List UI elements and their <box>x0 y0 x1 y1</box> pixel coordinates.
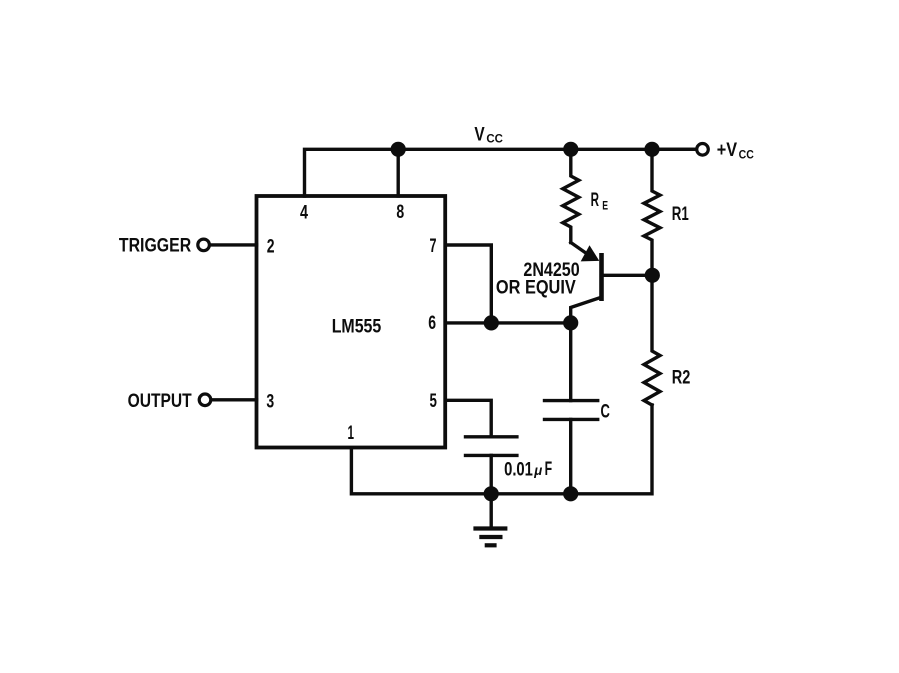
svg-text:CC: CC <box>739 147 754 161</box>
wire base to R1/R2 node <box>602 274 653 277</box>
terminal +VCC circle <box>697 144 709 156</box>
terminal TRIGGER circle <box>198 239 210 251</box>
wire bypass cap to ground rail <box>490 455 493 493</box>
transistor Q1 base bar <box>599 253 604 301</box>
svg-text:8: 8 <box>396 202 404 223</box>
svg-text:TRIGGER: TRIGGER <box>119 235 192 256</box>
svg-text:E: E <box>602 198 608 212</box>
svg-text:LM555: LM555 <box>332 317 382 338</box>
wire pin 1 to ground rail <box>351 448 491 494</box>
svg-text:CC: CC <box>486 132 503 146</box>
node dot base/R1/R2 <box>645 268 660 283</box>
ground symbol <box>473 529 507 546</box>
node dot pin6/pin7 <box>484 315 499 330</box>
wire pin 5 to bypass cap <box>445 400 491 437</box>
node dot R1/rail <box>644 142 659 157</box>
svg-text:C: C <box>601 401 611 422</box>
svg-text:OUTPUT: OUTPUT <box>128 391 192 412</box>
wire pin 3 OUTPUT lead <box>212 398 257 401</box>
terminal OUTPUT circle <box>199 394 211 406</box>
svg-text:+V: +V <box>717 140 738 161</box>
svg-text:R2: R2 <box>672 367 691 388</box>
svg-text:OR EQUIV: OR EQUIV <box>496 277 576 298</box>
wire +VCC lead <box>652 148 696 151</box>
svg-text:R: R <box>591 190 600 211</box>
svg-text:μ: μ <box>533 463 542 478</box>
svg-text:6: 6 <box>428 313 436 334</box>
ground stem <box>490 494 493 529</box>
capacitor C plates <box>545 399 598 402</box>
svg-text:5: 5 <box>430 391 438 412</box>
wire pin 8 drop <box>397 149 400 196</box>
node dot ground/bypass <box>484 486 499 501</box>
svg-text:F: F <box>545 459 553 480</box>
svg-text:R1: R1 <box>672 204 689 225</box>
wire VCC rail <box>305 149 697 196</box>
wire pin 7 to node <box>445 245 491 323</box>
svg-text:7: 7 <box>430 236 437 257</box>
svg-text:4: 4 <box>300 203 308 224</box>
wire node to capacitor C <box>569 323 572 401</box>
resistor R2 <box>644 275 660 405</box>
transistor Q1 emitter arrow <box>581 245 600 261</box>
transistor Q1 emitter lead <box>571 243 588 255</box>
svg-text:0.01: 0.01 <box>504 459 533 480</box>
node dot ground/C <box>563 486 578 501</box>
transistor Q1 collector lead <box>571 298 601 323</box>
svg-text:V: V <box>474 125 485 146</box>
wire ground rail to R2 <box>491 405 652 494</box>
svg-text:3: 3 <box>266 392 274 413</box>
resistor R1 <box>644 149 660 275</box>
node dot pin8/rail <box>391 142 406 157</box>
wire capacitor C to ground rail <box>569 419 572 493</box>
wire pin 2 TRIGGER lead <box>211 243 257 246</box>
node dot collector/C <box>563 315 578 330</box>
op-amp U1 LM555 box <box>257 196 446 448</box>
node dot RE/rail <box>563 142 578 157</box>
resistor RE <box>563 149 579 242</box>
wire pin 6 to collector node <box>445 321 571 324</box>
svg-text:1: 1 <box>348 423 355 444</box>
capacitor C3 0.01uF plates <box>466 435 517 438</box>
svg-text:2: 2 <box>267 236 275 257</box>
